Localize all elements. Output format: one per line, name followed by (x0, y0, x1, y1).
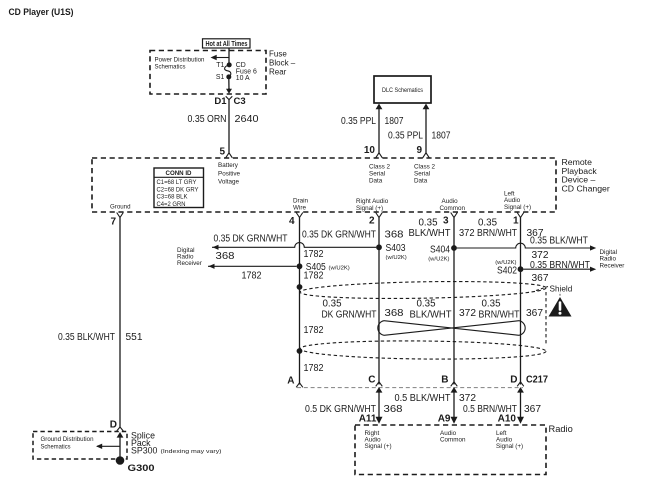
svg-text:(w/U2K): (w/U2K) (329, 265, 350, 271)
svg-text:Common: Common (440, 205, 466, 212)
splice S404 (428, 244, 457, 262)
pin 5 label Battery Positive Voltage (218, 162, 241, 186)
svg-text:Shield: Shield (550, 285, 573, 294)
svg-text:Drain: Drain (293, 198, 309, 205)
ground wire 0.35 BLK/WHT 551 (58, 218, 143, 428)
svg-text:CD Changer: CD Changer (562, 183, 610, 193)
svg-text:Voltage: Voltage (218, 179, 240, 186)
svg-text:Battery: Battery (218, 162, 239, 169)
svg-text:Signal (+): Signal (+) (504, 204, 531, 211)
svg-text:1807: 1807 (432, 131, 451, 142)
connector D1 C3 male arrow (226, 89, 232, 94)
digital radio receiver label right (600, 249, 625, 269)
wire pin 10 to DLC, 0.35 PPL 1807 (341, 104, 404, 153)
pin 2 label Right Audio Signal (+) (356, 198, 389, 212)
svg-text:1782: 1782 (304, 249, 324, 260)
label Splice Pack SP300 (131, 431, 222, 456)
svg-text:Hot at All Times: Hot at All Times (206, 39, 248, 48)
svg-text:D1: D1 (214, 96, 227, 107)
shield tap lower node (297, 348, 303, 354)
shield tap upper node (297, 284, 303, 290)
in-shield label 0.35 BLK/WHT 372 (410, 299, 477, 321)
svg-text:Class 2: Class 2 (369, 164, 390, 171)
svg-text:10: 10 (364, 145, 376, 156)
svg-text:0.35 DK GRN/WHT: 0.35 DK GRN/WHT (214, 234, 288, 245)
wire from hot feed to fuse (228, 48, 230, 65)
wire B to radio, 0.5 BLK/WHT 372 (395, 390, 477, 425)
svg-text:S404: S404 (430, 244, 450, 255)
wire fuse to D1 (228, 77, 230, 90)
svg-text:Signal (+): Signal (+) (356, 205, 383, 212)
svg-text:5: 5 (219, 147, 225, 158)
svg-text:372: 372 (459, 308, 476, 319)
svg-text:C: C (368, 375, 375, 386)
svg-text:S403: S403 (386, 243, 406, 254)
svg-text:S1: S1 (216, 74, 225, 81)
in-shield label 0.35 BRN/WHT 367 (479, 299, 544, 321)
svg-text:C217: C217 (526, 375, 548, 386)
svg-text:Receiver: Receiver (177, 260, 202, 267)
svg-text:BRN/WHT: BRN/WHT (477, 228, 517, 239)
pin C of C217 (368, 375, 382, 393)
shield ellipse top (300, 280, 546, 301)
svg-text:C2=68 DK GRY: C2=68 DK GRY (157, 186, 200, 193)
wire C to radio, 0.5 DK GRN/WHT 368 (305, 390, 403, 425)
pin 9 label Class 2 Serial Data (414, 164, 435, 185)
svg-text:0.35 BRN/WHT: 0.35 BRN/WHT (530, 260, 590, 271)
connector C217 dashed line (297, 387, 523, 389)
svg-text:368: 368 (385, 230, 404, 241)
svg-text:(w/U2K): (w/U2K) (386, 255, 407, 261)
wire S403 to digital radio receiver with hop over drain wire (212, 234, 376, 262)
arrow to power distribution schematics (211, 55, 230, 60)
svg-text:T1: T1 (216, 62, 224, 69)
svg-text:Right Audio: Right Audio (356, 198, 389, 205)
svg-text:Signal (+): Signal (+) (496, 443, 523, 450)
svg-text:Radio: Radio (549, 424, 573, 434)
svg-text:0.35 PPL: 0.35 PPL (341, 116, 376, 127)
svg-text:S402: S402 (497, 266, 517, 277)
svg-text:Ground Distribution: Ground Distribution (41, 436, 94, 443)
wire pin3 down to C217, 0.35 BLK/WHT 372 (409, 218, 475, 385)
wire into G300 (119, 435, 121, 460)
Radio dashed box (355, 425, 546, 475)
fuse terminal S1 (226, 74, 231, 79)
svg-text:Fuse: Fuse (269, 50, 287, 59)
svg-text:1782: 1782 (304, 271, 324, 282)
svg-text:Class 2: Class 2 (414, 164, 435, 171)
svg-text:Schematics: Schematics (155, 64, 186, 71)
svg-text:BLK/WHT: BLK/WHT (409, 228, 451, 239)
twisted pair symbol (378, 321, 525, 336)
wire D to radio, 0.5 BRN/WHT 367 (463, 390, 541, 425)
shield right side (545, 292, 547, 346)
svg-text:D: D (110, 420, 117, 431)
svg-text:C3: C3 (234, 96, 246, 107)
svg-text:Data: Data (369, 178, 383, 185)
pin D of C217 (510, 375, 524, 393)
svg-text:Block –: Block – (269, 58, 296, 67)
svg-text:A10: A10 (498, 414, 517, 425)
svg-text:Rear: Rear (269, 68, 287, 77)
svg-text:0.35 PPL: 0.35 PPL (388, 131, 423, 142)
pin 3 label Audio Common (440, 198, 466, 212)
svg-text:0.35 DK GRN/WHT: 0.35 DK GRN/WHT (302, 230, 376, 241)
svg-text:(w/U2K): (w/U2K) (428, 257, 449, 263)
arrow to ground distribution schematics (96, 444, 120, 449)
svg-text:372: 372 (532, 250, 549, 261)
svg-text:Common: Common (440, 437, 466, 444)
svg-text:Receiver: Receiver (600, 262, 625, 269)
svg-text:9: 9 (416, 145, 422, 156)
Remote Playback Device dashed box (92, 158, 556, 212)
label Remote Playback Device - CD Changer (562, 157, 610, 193)
svg-text:Serial: Serial (369, 171, 385, 178)
svg-text:C1=68 LT GRY: C1=68 LT GRY (157, 179, 198, 186)
drain wire vertical (299, 218, 301, 385)
radio pin A11 label Right Audio Signal (+) (365, 430, 392, 450)
in-shield label 0.35 DK GRN/WHT 368 (322, 299, 404, 321)
svg-text:0.35: 0.35 (482, 299, 501, 310)
svg-text:DLC Schematics: DLC Schematics (382, 87, 423, 94)
svg-text:2: 2 (369, 216, 375, 227)
svg-text:Schematics: Schematics (41, 443, 71, 450)
splice S402 (495, 260, 523, 277)
svg-text:367: 367 (526, 308, 543, 319)
svg-text:367: 367 (532, 273, 549, 284)
svg-text:0.35 ORN: 0.35 ORN (188, 114, 227, 125)
CONN ID table (154, 168, 204, 208)
svg-text:Signal (+): Signal (+) (365, 443, 392, 450)
svg-text:10 A: 10 A (236, 75, 250, 82)
svg-text:CONN ID: CONN ID (166, 170, 192, 177)
svg-text:372: 372 (459, 393, 476, 404)
wire S405 to digital radio receiver, 1782 (208, 264, 297, 282)
Fuse Block - Rear dashed box (150, 51, 266, 95)
svg-text:368: 368 (384, 404, 403, 415)
svg-text:A9: A9 (438, 414, 451, 425)
svg-text:367: 367 (524, 404, 541, 415)
DLC Schematics box (374, 76, 431, 103)
svg-text:(Indexing may vary): (Indexing may vary) (161, 449, 222, 455)
svg-text:Audio: Audio (442, 198, 459, 205)
pin 1 label Left Audio Signal (+) (504, 191, 531, 212)
svg-text:4: 4 (289, 216, 295, 227)
warning triangle (549, 293, 572, 317)
svg-text:1: 1 (513, 216, 519, 227)
svg-text:1782: 1782 (242, 270, 262, 281)
svg-text:(w/U2K): (w/U2K) (495, 260, 516, 266)
svg-text:3: 3 (443, 216, 449, 227)
svg-text:368: 368 (216, 251, 235, 262)
svg-text:D: D (510, 375, 517, 386)
splice S403 (376, 243, 407, 261)
svg-text:2640: 2640 (235, 114, 259, 125)
fuse terminal T1 (227, 62, 232, 67)
Ground Distribution Schematics dashed box (33, 432, 127, 460)
splice S405 (297, 262, 350, 273)
svg-text:Data: Data (414, 178, 428, 185)
svg-text:1782: 1782 (304, 363, 324, 374)
svg-text:0.5 BLK/WHT: 0.5 BLK/WHT (395, 393, 451, 404)
Hot at All Times box (203, 39, 251, 48)
shield ellipse bottom (300, 340, 546, 361)
svg-text:367: 367 (527, 228, 544, 239)
connector D1 C3 female fork (226, 96, 233, 99)
svg-text:DK GRN/WHT: DK GRN/WHT (322, 310, 377, 321)
svg-text:Positive: Positive (218, 170, 241, 177)
wire pin 9 to DLC, 0.35 PPL 1807 (388, 104, 451, 153)
digital radio receiver label left (177, 247, 202, 267)
fuse CD Fuse 6 10 A (225, 62, 257, 82)
svg-text:0.35 BLK/WHT: 0.35 BLK/WHT (58, 332, 115, 343)
svg-text:551: 551 (126, 332, 143, 343)
svg-text:G300: G300 (128, 463, 155, 473)
svg-text:A: A (287, 375, 294, 386)
svg-text:7: 7 (110, 217, 116, 228)
svg-text:1782: 1782 (304, 325, 324, 336)
svg-text:Ground: Ground (110, 204, 131, 211)
wire pin2 down to C217, 0.35 DK GRN/WHT 368 (302, 218, 404, 385)
connector D at splice pack (110, 420, 124, 438)
label Fuse Block - Rear (269, 50, 296, 77)
label Shield with leader (536, 285, 573, 294)
wire pin1 down to C217, 0.35 BRN/WHT 367 (477, 218, 544, 385)
pin B of C217 (441, 375, 457, 393)
svg-text:1807: 1807 (385, 116, 404, 127)
svg-text:C4=2 GRN: C4=2 GRN (157, 201, 186, 208)
svg-text:BLK/WHT: BLK/WHT (410, 310, 452, 321)
svg-text:B: B (441, 375, 448, 386)
svg-text:372: 372 (459, 228, 475, 239)
svg-text:CD Player (U1S): CD Player (U1S) (9, 7, 74, 17)
svg-text:BRN/WHT: BRN/WHT (479, 310, 520, 321)
Power Distribution Schematics label (155, 57, 205, 71)
radio pin A10 label Left Audio Signal (+) (496, 430, 523, 450)
svg-text:0.35: 0.35 (323, 299, 342, 310)
radio pin A9 label Audio Common (440, 430, 466, 444)
svg-text:0.35: 0.35 (417, 299, 436, 310)
wire S402 to digital radio receiver right, 0.35 BRN/WHT 367 (523, 260, 596, 284)
wire D1 to pin 5, 0.35 ORN 2640 (188, 100, 259, 153)
svg-text:Serial: Serial (414, 171, 430, 178)
ground G300 (116, 456, 125, 465)
svg-text:Power Distribution: Power Distribution (155, 57, 205, 64)
svg-text:C3=68 BLK: C3=68 BLK (157, 194, 189, 201)
wire S404 to digital radio receiver right with hop over pin1 wire (457, 236, 596, 261)
svg-text:Wire: Wire (293, 205, 306, 212)
svg-text:SP300: SP300 (131, 446, 158, 456)
pin 10 label Class 2 Serial Data (369, 164, 390, 185)
pin 4 label Drain Wire (293, 198, 309, 212)
svg-text:A11: A11 (359, 414, 377, 425)
svg-text:368: 368 (385, 308, 404, 319)
